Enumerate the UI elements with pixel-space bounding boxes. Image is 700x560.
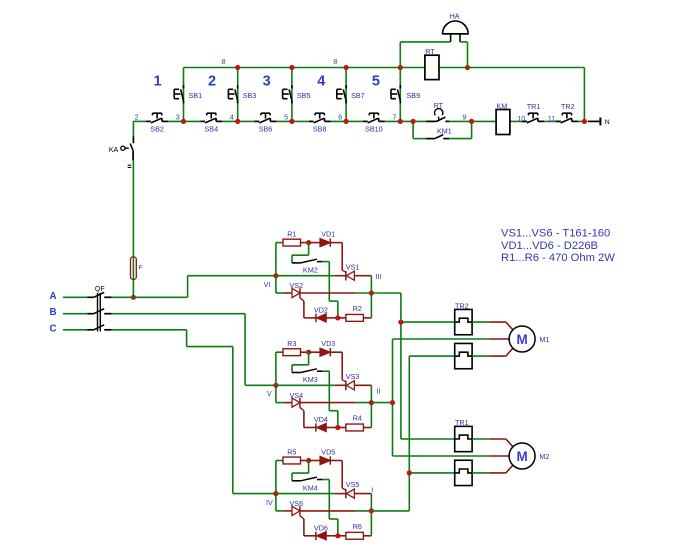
wire VS4 gate to VD4 row bbox=[300, 407, 316, 427]
wire VD5 to VS5 gate bbox=[330, 461, 346, 491]
pushbutton SB7 (NO, vertical) bbox=[337, 85, 365, 103]
wire node to VD5 bbox=[309, 460, 320, 462]
wire VS5 to output corner bbox=[354, 494, 371, 511]
svg-text:VD6: VD6 bbox=[314, 523, 328, 532]
svg-text:VD1: VD1 bbox=[321, 230, 335, 239]
svg-text:R3: R3 bbox=[287, 339, 296, 348]
junction dot module input bbox=[273, 491, 278, 496]
junction dot module output bbox=[369, 400, 374, 405]
junction dot phase A to TR2 upper bbox=[398, 320, 403, 325]
wire HA left leg to bus bbox=[400, 42, 450, 68]
svg-text:M: M bbox=[516, 449, 527, 464]
svg-text:QF: QF bbox=[95, 286, 105, 293]
svg-text:II: II bbox=[377, 386, 381, 395]
wire row2 to VS4 bbox=[276, 402, 292, 404]
svg-text:VD2: VD2 bbox=[314, 305, 328, 314]
wires into motor M2 bbox=[472, 439, 513, 473]
junction dot phase C to TR1 lower bbox=[407, 470, 412, 475]
svg-text:VD1...VD6 - D226B: VD1...VD6 - D226B bbox=[501, 240, 598, 252]
wire R1 to node bbox=[301, 242, 309, 244]
pushbutton SB6 (NC) bbox=[255, 113, 277, 133]
wire node to R4 bbox=[338, 427, 346, 429]
contact KM1 (NO) bbox=[426, 135, 449, 139]
pushbutton SB2 (NC) bbox=[146, 113, 168, 133]
wire VD4 to node bbox=[326, 427, 338, 429]
svg-text:I: I bbox=[371, 486, 373, 495]
wire module1 output (phase A) vertical bbox=[371, 293, 454, 439]
svg-text:4: 4 bbox=[230, 112, 234, 121]
svg-text:VS2: VS2 bbox=[290, 281, 304, 290]
thermal element TR1 lower bbox=[455, 460, 472, 485]
svg-text:KM3: KM3 bbox=[303, 375, 318, 384]
diode VD5 bbox=[320, 456, 330, 464]
switch KA bbox=[121, 136, 134, 160]
junction dot after R3 bbox=[306, 350, 311, 355]
svg-text:1: 1 bbox=[153, 74, 161, 90]
wire to resistor R1 bbox=[276, 242, 283, 244]
junction dot module output bbox=[369, 290, 374, 295]
wire main row to VS1 bbox=[276, 275, 346, 277]
svg-text:VD4: VD4 bbox=[314, 415, 328, 424]
svg-text:KM1: KM1 bbox=[437, 126, 452, 135]
wire row2 to VS2 bbox=[276, 292, 292, 294]
contactor coil KM bbox=[496, 110, 510, 135]
junction dot module input bbox=[273, 273, 278, 278]
resistor R1 bbox=[283, 239, 301, 246]
contact TR1 (NC) on main row bbox=[522, 113, 544, 123]
junction dot after R1 bbox=[306, 240, 311, 245]
wire VS2 anode to output node bbox=[300, 292, 372, 294]
svg-text:N: N bbox=[605, 119, 610, 126]
fuse F bbox=[131, 257, 137, 280]
contact KM3 (NO) bbox=[292, 369, 322, 373]
wires into motor M1 bbox=[472, 322, 513, 356]
svg-text:C: C bbox=[49, 323, 56, 334]
thermal element TR2 upper bbox=[455, 309, 472, 334]
svg-text:R4: R4 bbox=[353, 414, 362, 423]
svg-text:VS4: VS4 bbox=[290, 391, 304, 400]
svg-text:KM4: KM4 bbox=[303, 484, 318, 493]
junction dot module output bbox=[369, 508, 374, 513]
motor M1 bbox=[509, 326, 535, 352]
circuit breaker QF bbox=[88, 292, 112, 331]
svg-text:VI: VI bbox=[264, 280, 271, 289]
wire main row to VS3 bbox=[276, 384, 346, 386]
motor M2 bbox=[509, 443, 535, 469]
thermal element TR2 lower bbox=[455, 343, 472, 368]
svg-text:VS5: VS5 bbox=[346, 480, 360, 489]
svg-text:R1: R1 bbox=[287, 230, 296, 239]
diode VD4 bbox=[316, 423, 326, 431]
svg-text:KM2: KM2 bbox=[303, 266, 318, 275]
svg-text:9: 9 bbox=[462, 112, 466, 121]
contact TR2 (NC) on main row bbox=[556, 113, 578, 123]
wire phase B into QF bbox=[63, 313, 88, 315]
wire R3 to node bbox=[301, 351, 309, 353]
wire row2 to VS6 bbox=[276, 510, 292, 512]
junction dot N drop bbox=[582, 119, 587, 124]
svg-text:TR1: TR1 bbox=[527, 102, 541, 111]
wire VS6 gate to VD6 row bbox=[300, 516, 316, 536]
wire VD2 to node bbox=[326, 317, 338, 319]
wire phase C QF to module IV bbox=[112, 330, 276, 494]
svg-text:III: III bbox=[376, 272, 382, 281]
svg-text:SB5: SB5 bbox=[297, 91, 311, 100]
junction dot VD4-R4 bbox=[335, 425, 340, 430]
wire VS6 anode to output node bbox=[300, 510, 372, 512]
svg-text:V: V bbox=[267, 389, 272, 398]
wire button verticals SB1 SB3 SB5 SB7 SB9 bbox=[184, 68, 401, 122]
thyristor VS3 bbox=[346, 381, 355, 391]
wire phase A into QF bbox=[63, 296, 88, 298]
bell HA bbox=[443, 21, 469, 42]
svg-text:IV: IV bbox=[266, 498, 273, 507]
svg-text:10: 10 bbox=[517, 114, 525, 123]
junction dot after R5 bbox=[306, 458, 311, 463]
svg-text:5: 5 bbox=[372, 74, 380, 90]
junction dot VD6-R6 bbox=[335, 533, 340, 538]
thyristor VS5 bbox=[346, 489, 355, 499]
svg-text:KA: KA bbox=[109, 147, 119, 154]
svg-text:F: F bbox=[139, 264, 143, 271]
wire module left vertical (phase input) bbox=[275, 461, 277, 511]
thyristor VS4 bbox=[292, 398, 300, 408]
svg-text:TR1: TR1 bbox=[455, 418, 469, 427]
svg-text:SB1: SB1 bbox=[189, 91, 203, 100]
svg-text:SB8: SB8 bbox=[313, 125, 327, 134]
wire phase C into QF bbox=[63, 329, 88, 331]
thermal element TR1 upper bbox=[455, 426, 472, 451]
pushbutton SB3 (NO, vertical) bbox=[228, 85, 256, 103]
svg-text:3: 3 bbox=[263, 74, 271, 90]
svg-text:SB4: SB4 bbox=[205, 125, 219, 134]
resistor R2 bbox=[346, 314, 364, 321]
node labels 2 3 4 5 6 7 bbox=[135, 112, 397, 121]
svg-text:TR2: TR2 bbox=[561, 102, 575, 111]
contact KM2 (NO) bbox=[292, 259, 322, 263]
wire KM3 to bottom node bbox=[322, 371, 337, 427]
svg-text:5: 5 bbox=[284, 112, 288, 121]
wire HA right leg to bus bbox=[460, 42, 468, 68]
wire phase B QF to module V bbox=[112, 314, 276, 386]
svg-text:M1: M1 bbox=[540, 337, 550, 344]
svg-text:B: B bbox=[49, 307, 56, 318]
wire R2 up to output node bbox=[363, 293, 371, 318]
wire phase A QF to module VI bbox=[112, 276, 276, 298]
terminal N bbox=[588, 117, 601, 125]
wire KM1 branch bbox=[413, 121, 472, 138]
thyristor VS2 bbox=[292, 288, 300, 298]
svg-text:SB9: SB9 bbox=[407, 91, 421, 100]
svg-text:RT: RT bbox=[434, 101, 444, 110]
svg-text:8: 8 bbox=[333, 57, 337, 66]
svg-text:6: 6 bbox=[338, 112, 342, 121]
annotation text block bbox=[501, 228, 615, 264]
resistor R5 bbox=[283, 457, 301, 464]
thyristor VS1 bbox=[346, 271, 355, 281]
wire KM4 to bottom node bbox=[322, 480, 337, 536]
svg-text:8: 8 bbox=[222, 57, 226, 66]
svg-text:A: A bbox=[49, 291, 56, 302]
svg-text:VS1...VS6 - T161-160: VS1...VS6 - T161-160 bbox=[501, 228, 610, 240]
pushbutton SB1 (NO, vertical) bbox=[174, 85, 202, 103]
wire KM3 branch left bbox=[292, 352, 309, 372]
svg-text:SB6: SB6 bbox=[259, 125, 273, 134]
svg-text:M2: M2 bbox=[540, 454, 550, 461]
big station numbers 1-5 bbox=[153, 74, 379, 90]
svg-text:R2: R2 bbox=[353, 304, 362, 313]
wire R6 up to output node bbox=[363, 511, 371, 536]
wire node 2 drop bbox=[132, 121, 134, 136]
junction dot node 9 bbox=[469, 119, 474, 124]
svg-text:M: M bbox=[516, 332, 527, 347]
wire to resistor R3 bbox=[276, 351, 283, 353]
resistor R3 bbox=[283, 349, 301, 356]
pushbutton SB8 (NC) bbox=[309, 113, 331, 133]
wire node to VD3 bbox=[309, 351, 320, 353]
wire module3 output (phase C) vertical bbox=[371, 356, 454, 511]
svg-text:R1...R6 - 470 Ohm 2W: R1...R6 - 470 Ohm 2W bbox=[501, 252, 615, 264]
wire module left vertical (phase input) bbox=[275, 243, 277, 293]
svg-text:VS1: VS1 bbox=[346, 262, 360, 271]
wire VS3 to output corner bbox=[354, 385, 371, 402]
svg-text:2: 2 bbox=[135, 112, 139, 121]
diode VD1 bbox=[320, 238, 330, 246]
svg-text:R5: R5 bbox=[287, 448, 296, 457]
resistor R6 bbox=[346, 532, 364, 539]
wire VD6 to node bbox=[326, 535, 338, 537]
svg-text:2: 2 bbox=[208, 74, 216, 90]
junction dots top bus bbox=[235, 65, 470, 70]
svg-text:7: 7 bbox=[393, 112, 397, 121]
latch mark below KA bbox=[128, 165, 132, 167]
svg-text:SB3: SB3 bbox=[243, 91, 257, 100]
wire to resistor R5 bbox=[276, 460, 283, 462]
pushbutton SB9 (NO, vertical) bbox=[391, 85, 420, 103]
relay coil RT bbox=[425, 55, 439, 79]
wire module left vertical (phase input) bbox=[275, 352, 277, 402]
junction dot module input bbox=[273, 383, 278, 388]
svg-text:KM: KM bbox=[496, 101, 507, 110]
wire VD3 to VS3 gate bbox=[330, 352, 346, 382]
svg-text:SB10: SB10 bbox=[365, 125, 383, 134]
pushbutton SB4 (NC) bbox=[200, 113, 222, 133]
wire VS1 to output corner bbox=[354, 276, 371, 293]
svg-text:11: 11 bbox=[548, 114, 555, 123]
svg-text:4: 4 bbox=[317, 74, 325, 90]
wire KM2 to bottom node bbox=[322, 262, 337, 318]
junction dots main row nodes 3-7 bbox=[181, 119, 403, 124]
diode VD2 bbox=[316, 314, 326, 322]
junction dot node 7a (KM1 left) bbox=[411, 119, 416, 124]
resistor R4 bbox=[346, 424, 364, 431]
svg-text:R6: R6 bbox=[353, 522, 362, 531]
svg-text:TR2: TR2 bbox=[455, 301, 469, 310]
wire main control row segments bbox=[133, 120, 584, 122]
diode VD3 bbox=[320, 348, 330, 356]
wire KM4 branch left bbox=[292, 461, 309, 481]
wire main row to VS5 bbox=[276, 493, 346, 495]
wire top bus node 8 bbox=[184, 68, 585, 122]
svg-text:SB2: SB2 bbox=[150, 125, 164, 134]
svg-text:VD5: VD5 bbox=[321, 448, 335, 457]
pushbutton SB5 (NO, vertical) bbox=[283, 85, 311, 103]
wire KA to fuse and through fuse to phase A bbox=[132, 160, 134, 297]
junction dot phase B at module2 output bbox=[390, 400, 395, 405]
wire R5 to node bbox=[301, 460, 309, 462]
thyristor VS6 bbox=[292, 506, 300, 516]
wire VS4 anode to output node bbox=[300, 402, 372, 404]
wire VD1 to VS1 gate bbox=[330, 243, 346, 273]
wire KM2 branch left bbox=[292, 243, 309, 263]
svg-text:HA: HA bbox=[450, 11, 460, 20]
svg-text:SB7: SB7 bbox=[351, 91, 365, 100]
svg-text:RT: RT bbox=[425, 47, 435, 56]
contact RT (thermal, NO) on main row bbox=[426, 109, 449, 122]
svg-text:VS3: VS3 bbox=[346, 372, 360, 381]
wire VS2 gate to VD2 row bbox=[300, 298, 316, 318]
svg-text:VS6: VS6 bbox=[290, 499, 304, 508]
junction dot fuse on phase A bbox=[131, 295, 136, 300]
pushbutton SB10 (NC) bbox=[363, 113, 385, 133]
svg-text:VD3: VD3 bbox=[321, 339, 335, 348]
contact KM4 (NO) bbox=[292, 477, 322, 481]
wire R4 up to output node bbox=[363, 403, 371, 428]
svg-text:3: 3 bbox=[176, 112, 180, 121]
wire node to R6 bbox=[338, 535, 346, 537]
wire module2 output (phase B) vertical bbox=[371, 339, 489, 456]
junction dot VD2-R2 bbox=[335, 315, 340, 320]
diode VD6 bbox=[316, 532, 326, 540]
wire node to R2 bbox=[338, 317, 346, 319]
wire node to VD1 bbox=[309, 242, 320, 244]
